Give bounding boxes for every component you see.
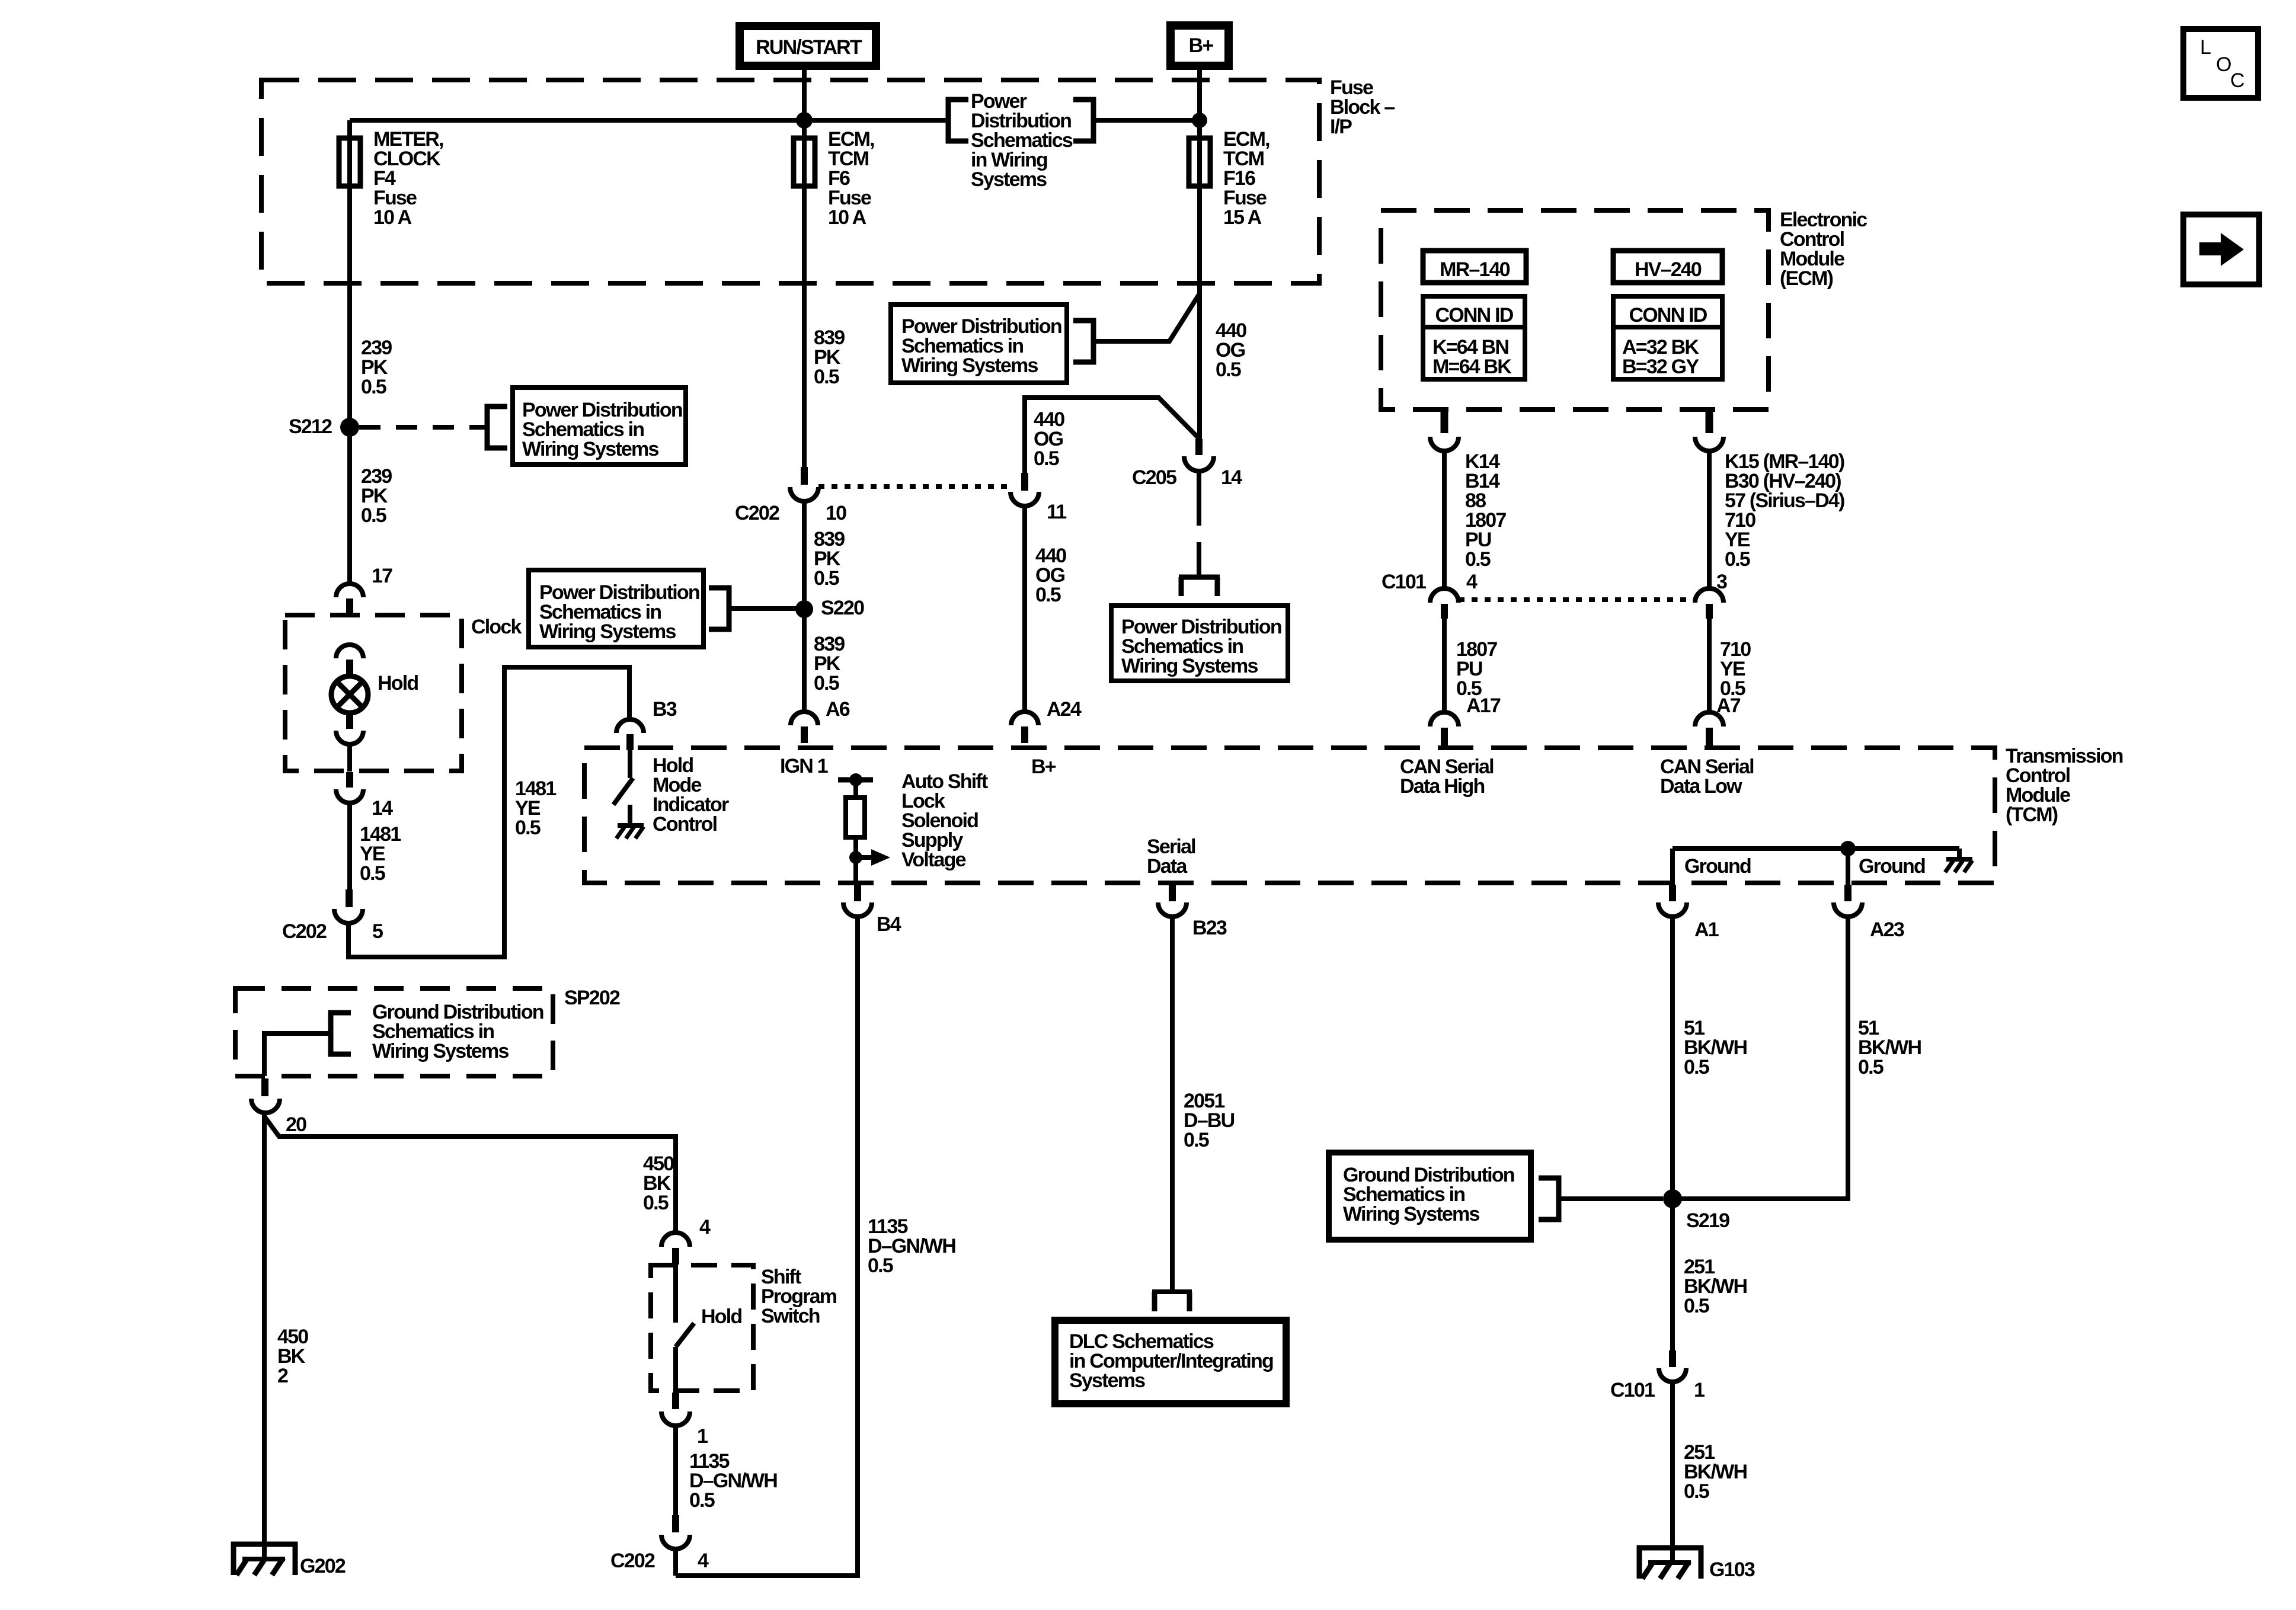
clock dashed box bbox=[285, 615, 462, 771]
wire A1 to S219 to C101-1 bbox=[1670, 917, 1675, 1351]
wire C101-4 to A17 bbox=[1442, 619, 1447, 712]
svg-text:17: 17 bbox=[372, 565, 392, 587]
svg-text:2: 2 bbox=[277, 1365, 288, 1387]
svg-text:Systems: Systems bbox=[1069, 1369, 1145, 1392]
note bracket at S220 box bbox=[709, 588, 729, 629]
connector TCM pin A1 bbox=[1658, 885, 1687, 917]
svg-text:0.5: 0.5 bbox=[1684, 1480, 1709, 1503]
wire A23 to S219 bbox=[1673, 917, 1848, 1199]
svg-text:0.5: 0.5 bbox=[1684, 1295, 1709, 1317]
svg-text:0.5: 0.5 bbox=[1184, 1129, 1209, 1151]
wire bracket to S219 bbox=[1559, 1196, 1663, 1201]
svg-text:0.5: 0.5 bbox=[361, 504, 386, 527]
svg-text:0.5: 0.5 bbox=[643, 1192, 669, 1214]
LOC reference box bbox=[2183, 29, 2258, 98]
note box power distribution (B+ feed) bbox=[891, 305, 1067, 383]
ground G103 bbox=[1637, 1545, 1703, 1579]
svg-text:Systems: Systems bbox=[971, 168, 1047, 191]
svg-text:MR–140: MR–140 bbox=[1440, 258, 1510, 281]
svg-text:15 A: 15 A bbox=[1223, 206, 1262, 229]
svg-text:0.5: 0.5 bbox=[360, 862, 385, 885]
wire B23 serial data bbox=[1170, 917, 1175, 1289]
connector ECM left pin bbox=[1430, 412, 1459, 451]
svg-text:C202: C202 bbox=[610, 1550, 655, 1572]
note box DLC schematics bbox=[1055, 1320, 1286, 1404]
svg-text:O: O bbox=[2216, 53, 2231, 76]
svg-text:Clock: Clock bbox=[471, 616, 522, 638]
connector TCM pin A24 bbox=[1011, 712, 1038, 743]
ECM connector label box MR-140 bbox=[1423, 251, 1526, 283]
connector TCM pin B3 bbox=[616, 719, 644, 750]
svg-text:0.5: 0.5 bbox=[361, 376, 386, 398]
svg-text:0.5: 0.5 bbox=[1034, 447, 1059, 470]
svg-text:0.5: 0.5 bbox=[814, 366, 839, 388]
svg-text:0.5: 0.5 bbox=[1216, 359, 1241, 381]
wire 1135 D-GN/WH to C202-4 bbox=[673, 1426, 678, 1515]
svg-text:0.5: 0.5 bbox=[814, 672, 839, 694]
svg-text:0.5: 0.5 bbox=[1725, 548, 1750, 571]
svg-text:L: L bbox=[2200, 36, 2211, 59]
connector ECM right pin bbox=[1695, 412, 1723, 451]
svg-text:10 A: 10 A bbox=[373, 206, 412, 229]
svg-text:A7: A7 bbox=[1716, 694, 1741, 717]
switch shift program bbox=[676, 1265, 694, 1393]
arrow icon bbox=[2199, 233, 2244, 266]
svg-text:4: 4 bbox=[1466, 571, 1478, 593]
ground G202 bbox=[231, 1542, 298, 1575]
note bracket at S212 bbox=[487, 406, 507, 448]
dotted connector line C202 bbox=[818, 484, 1011, 489]
wire bracket to B+ wire with diagonal bbox=[1093, 295, 1199, 341]
svg-text:0.5: 0.5 bbox=[515, 817, 541, 839]
svg-text:HV–240: HV–240 bbox=[1635, 258, 1702, 281]
wire junction to left bracket bbox=[804, 118, 948, 123]
connector C202 pin 11 bbox=[1011, 473, 1039, 506]
ECM connector label box HV-240 bbox=[1613, 251, 1722, 283]
wire resistor to B4 bbox=[853, 837, 858, 883]
TCM dashed box bbox=[584, 748, 1995, 883]
svg-text:Data High: Data High bbox=[1400, 775, 1485, 798]
svg-text:10 A: 10 A bbox=[828, 206, 866, 229]
svg-text:B+: B+ bbox=[1031, 756, 1056, 778]
svg-text:B+: B+ bbox=[1189, 34, 1214, 57]
svg-text:A6: A6 bbox=[826, 698, 850, 721]
note bracket at B+ feed box bbox=[1073, 321, 1093, 362]
connector clock pin 14 bbox=[336, 772, 363, 803]
junction ground bus bbox=[1840, 841, 1856, 856]
connector TCM pin B4 bbox=[843, 885, 872, 917]
svg-text:B23: B23 bbox=[1192, 917, 1227, 939]
shift program switch dashed box bbox=[651, 1265, 753, 1391]
wire right bracket to B+ feed bbox=[1093, 118, 1200, 123]
svg-text:Wiring Systems: Wiring Systems bbox=[901, 354, 1038, 377]
svg-text:0.5: 0.5 bbox=[868, 1254, 893, 1277]
svg-text:0.5: 0.5 bbox=[689, 1489, 715, 1512]
svg-text:I/P: I/P bbox=[1330, 116, 1352, 138]
dotted connector line C101 bbox=[1459, 597, 1695, 602]
connector TCM pin B23 bbox=[1158, 884, 1187, 917]
dashed wire below C205 bbox=[1197, 492, 1201, 576]
wire ECM right pin to C101 bbox=[1707, 451, 1712, 588]
svg-text:Wiring Systems: Wiring Systems bbox=[1343, 1203, 1479, 1225]
svg-text:G103: G103 bbox=[1709, 1558, 1755, 1581]
svg-text:Hold: Hold bbox=[701, 1305, 741, 1328]
switch hold mode indicator (B3) bbox=[613, 750, 633, 823]
svg-text:S220: S220 bbox=[821, 597, 864, 619]
svg-text:A24: A24 bbox=[1047, 698, 1082, 721]
wire RUN/START to junction bbox=[802, 66, 807, 136]
svg-text:(ECM): (ECM) bbox=[1780, 267, 1833, 290]
svg-text:A17: A17 bbox=[1466, 694, 1501, 717]
svg-text:SP202: SP202 bbox=[564, 987, 620, 1009]
splice S212 bbox=[340, 418, 359, 437]
svg-text:Voltage: Voltage bbox=[901, 849, 966, 871]
svg-text:11: 11 bbox=[1047, 501, 1066, 523]
splice S219 bbox=[1663, 1189, 1682, 1208]
note bracket right (power distribution) bbox=[1073, 100, 1093, 141]
fuse F4 bbox=[339, 138, 360, 186]
connector C202 pin 5 bbox=[334, 889, 363, 923]
svg-text:B3: B3 bbox=[653, 698, 677, 721]
svg-text:0.5: 0.5 bbox=[1858, 1056, 1884, 1078]
svg-text:C: C bbox=[2230, 69, 2244, 92]
svg-text:10: 10 bbox=[826, 502, 846, 524]
svg-text:Data: Data bbox=[1147, 855, 1188, 878]
connector C101 pin 3 bbox=[1695, 588, 1723, 619]
fuse block I/P dashed box bbox=[261, 80, 1319, 283]
svg-text:B4: B4 bbox=[877, 913, 901, 936]
junction on RUN/START feed bbox=[796, 112, 813, 129]
svg-text:Control: Control bbox=[653, 813, 717, 836]
svg-text:Switch: Switch bbox=[761, 1305, 820, 1327]
wire C202-4 stub bbox=[673, 1549, 678, 1576]
note box power distribution (S212) bbox=[513, 388, 686, 465]
note bracket left (power distribution) bbox=[948, 100, 968, 141]
svg-text:Data Low: Data Low bbox=[1660, 775, 1742, 798]
chassis ground (TCM) bbox=[1945, 859, 1972, 872]
svg-text:C101: C101 bbox=[1610, 1379, 1655, 1401]
fuse F6 bbox=[794, 138, 815, 186]
junction at arrow bbox=[849, 851, 862, 864]
svg-text:0.5: 0.5 bbox=[1035, 584, 1061, 606]
svg-text:S219: S219 bbox=[1686, 1209, 1729, 1232]
wire 450 BK to G202 bbox=[262, 1113, 267, 1560]
note box power distribution (S220) bbox=[529, 570, 703, 647]
arrow auto shift lock solenoid supply voltage bbox=[861, 849, 890, 866]
TCM internal ground bus bbox=[1673, 849, 1959, 886]
connector clock pin 17 bbox=[336, 584, 363, 615]
svg-text:S212: S212 bbox=[289, 415, 332, 438]
connector TCM pin A6 bbox=[791, 712, 818, 743]
svg-text:14: 14 bbox=[1221, 466, 1242, 489]
wire C202-10 to S220 bbox=[802, 501, 807, 712]
ECM dashed box bbox=[1381, 210, 1769, 409]
note box ground distribution (S219) bbox=[1329, 1153, 1531, 1240]
junction on B+ feed bbox=[1192, 113, 1207, 128]
ECM CONN ID box left bbox=[1423, 296, 1525, 379]
connector C202 pin 4 bbox=[661, 1515, 690, 1549]
svg-text:CONN ID: CONN ID bbox=[1435, 304, 1514, 327]
wire C202-11 to A24 bbox=[1022, 506, 1027, 712]
svg-text:4: 4 bbox=[698, 1550, 709, 1572]
chassis ground (hold mode indicator) bbox=[616, 825, 644, 838]
svg-text:0.5: 0.5 bbox=[814, 567, 839, 590]
fuse F4 wire bbox=[347, 136, 352, 583]
connector C101 pin 4 bbox=[1430, 588, 1459, 619]
wire 1481 YE to C202 bbox=[347, 803, 352, 889]
note bracket at SP202 bbox=[331, 1013, 351, 1054]
connector TCM pin A17 bbox=[1430, 712, 1459, 745]
wire ECM left pin to C101 bbox=[1442, 451, 1447, 588]
terminator to power distribution note bbox=[1179, 577, 1220, 596]
arrow reference box bbox=[2183, 215, 2259, 284]
note bracket at S219 box bbox=[1539, 1178, 1559, 1219]
svg-text:14: 14 bbox=[372, 797, 393, 820]
svg-text:C101: C101 bbox=[1382, 571, 1426, 593]
connector C101 pin 1 bbox=[1659, 1350, 1686, 1382]
label L O C bbox=[2200, 36, 2244, 92]
svg-text:A1: A1 bbox=[1694, 918, 1719, 941]
svg-text:RUN/START: RUN/START bbox=[756, 36, 862, 59]
wire C101-1 to G103 bbox=[1670, 1382, 1675, 1560]
clock internal connector bottom bbox=[336, 713, 363, 744]
svg-text:CONN ID: CONN ID bbox=[1629, 304, 1707, 327]
svg-text:Ground: Ground bbox=[1859, 855, 1925, 878]
svg-text:Ground: Ground bbox=[1684, 855, 1751, 878]
svg-text:C202: C202 bbox=[735, 502, 779, 524]
SP202 dashed box bbox=[235, 988, 553, 1076]
wire C202-5 to hold mode riser bbox=[348, 667, 629, 957]
svg-text:A23: A23 bbox=[1870, 918, 1904, 941]
clock internal connector top bbox=[336, 645, 363, 674]
svg-text:Wiring Systems: Wiring Systems bbox=[1121, 655, 1258, 677]
svg-text:0.5: 0.5 bbox=[1684, 1056, 1709, 1078]
svg-text:1: 1 bbox=[1694, 1379, 1705, 1401]
svg-text:B=32 GY: B=32 GY bbox=[1622, 356, 1699, 378]
power terminal RUN/START bbox=[740, 26, 876, 66]
svg-text:Wiring Systems: Wiring Systems bbox=[372, 1040, 509, 1062]
wire branch to shift program switch bbox=[264, 1116, 676, 1233]
svg-text:Hold: Hold bbox=[378, 672, 418, 694]
indicator lamp Hold bbox=[331, 676, 368, 713]
splice S220 bbox=[795, 600, 813, 618]
wire bracket to S220 bbox=[729, 606, 797, 611]
auto shift lock solenoid supply tap bbox=[838, 773, 873, 798]
svg-text:20: 20 bbox=[286, 1113, 306, 1136]
svg-text:IGN 1: IGN 1 bbox=[780, 755, 828, 777]
svg-text:Wiring Systems: Wiring Systems bbox=[539, 620, 676, 643]
connector TCM pin A7 bbox=[1695, 712, 1723, 745]
wire junction to fuse F4 bbox=[350, 118, 804, 123]
resistor auto shift lock bbox=[846, 798, 865, 837]
svg-text:M=64 BK: M=64 BK bbox=[1432, 356, 1512, 378]
connector C205 pin 14 bbox=[1184, 439, 1214, 492]
dashed reference wire from S212 bbox=[359, 425, 485, 430]
terminator to DLC note bbox=[1152, 1292, 1192, 1311]
fuse F16 wire bbox=[1197, 66, 1202, 136]
fuse F6 wire bbox=[802, 136, 807, 468]
wire 440 OG branch from B+ feed bbox=[1025, 398, 1198, 474]
ECM CONN ID box right bbox=[1613, 296, 1722, 379]
svg-text:C202: C202 bbox=[282, 920, 327, 943]
svg-text:(TCM): (TCM) bbox=[2006, 804, 2058, 826]
connector TCM pin A23 bbox=[1834, 885, 1862, 917]
note box power distribution (C205) bbox=[1111, 606, 1288, 681]
svg-text:4: 4 bbox=[699, 1216, 711, 1238]
wire lamp to clock box edge bbox=[347, 744, 352, 772]
connector SP202 pin 20 bbox=[251, 1078, 280, 1113]
svg-text:G202: G202 bbox=[300, 1555, 346, 1577]
fuse F16 bbox=[1189, 138, 1210, 186]
svg-text:1: 1 bbox=[697, 1425, 708, 1448]
svg-text:C205: C205 bbox=[1132, 466, 1176, 489]
wire B4 to C202-4 bus bbox=[676, 917, 858, 1576]
connector shift switch pin 4 bbox=[661, 1233, 690, 1265]
connector C202 pin 10 bbox=[790, 467, 818, 501]
wire C101-3 to A7 bbox=[1707, 619, 1712, 712]
connector shift switch pin 1 bbox=[661, 1393, 690, 1426]
power terminal B+ bbox=[1171, 25, 1229, 66]
svg-text:5: 5 bbox=[372, 920, 383, 943]
svg-text:Wiring Systems: Wiring Systems bbox=[522, 438, 658, 460]
wire bracket to SP202 lead bbox=[264, 1033, 331, 1076]
svg-text:0.5: 0.5 bbox=[1465, 548, 1491, 571]
